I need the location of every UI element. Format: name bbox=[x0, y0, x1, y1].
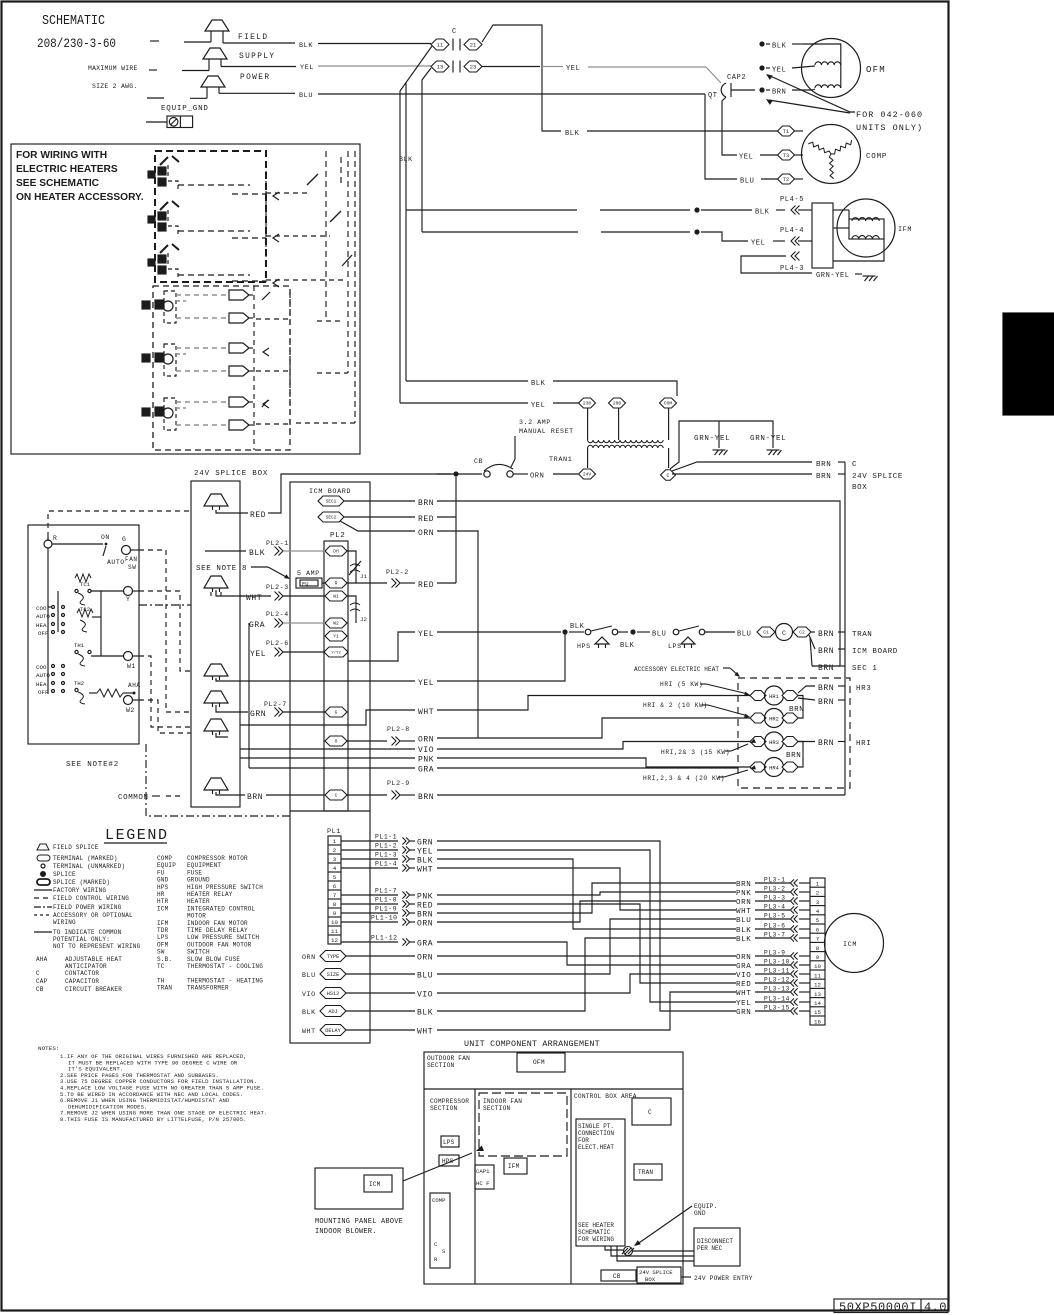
wire ORN PL1 row 922 to PL3 row 901 bbox=[437, 901, 736, 922]
svg-text:Y/Y2: Y/Y2 bbox=[331, 650, 341, 655]
svg-text:GRN-YEL: GRN-YEL bbox=[816, 272, 850, 280]
svg-text:PER NEC: PER NEC bbox=[697, 1245, 723, 1252]
svg-text:AUTO: AUTO bbox=[107, 559, 125, 566]
svg-text:HR1: HR1 bbox=[769, 694, 779, 700]
svg-text:8: 8 bbox=[816, 945, 820, 952]
svg-text:4: 4 bbox=[333, 865, 337, 872]
svg-text:BRN: BRN bbox=[247, 793, 263, 802]
wire WHT2 PL1 row 1030 to PL3 row 992 bbox=[437, 992, 736, 1030]
svg-text:YEL: YEL bbox=[739, 154, 753, 162]
svg-text:DELAY: DELAY bbox=[325, 1028, 341, 1034]
svg-text:SEE SCHEMATIC: SEE SCHEMATIC bbox=[16, 178, 100, 189]
svg-text:BRN: BRN bbox=[816, 461, 831, 469]
svg-text:W2: W2 bbox=[333, 621, 339, 627]
svg-text:YEL: YEL bbox=[250, 650, 266, 659]
svg-text:YEL: YEL bbox=[417, 848, 433, 857]
svg-text:AHA: AHA bbox=[128, 682, 141, 689]
svg-text:9: 9 bbox=[816, 954, 820, 961]
svg-text:HPS: HPS bbox=[577, 643, 591, 650]
svg-text:BRN: BRN bbox=[818, 698, 834, 707]
title block 50XP50000I 4.0 bbox=[834, 1299, 948, 1313]
svg-text:BLU: BLU bbox=[736, 917, 751, 925]
PL2 terminal Y/Y2 bbox=[324, 647, 348, 657]
svg-text:RED: RED bbox=[736, 981, 751, 989]
svg-text:HEATER: HEATER bbox=[187, 898, 210, 905]
svg-text:BRN: BRN bbox=[816, 473, 831, 481]
svg-text:BLU: BLU bbox=[740, 178, 754, 186]
PL1 pin 3 wire BLK bbox=[341, 858, 398, 860]
svg-text:WHT: WHT bbox=[302, 1028, 316, 1035]
svg-text:R: R bbox=[335, 581, 338, 587]
svg-text:WIRING: WIRING bbox=[53, 919, 76, 926]
arrangement dividers bbox=[424, 1088, 683, 1090]
svg-text:YEL: YEL bbox=[531, 402, 545, 410]
svg-text:BRN: BRN bbox=[772, 89, 786, 97]
svg-text:BLK: BLK bbox=[772, 43, 787, 51]
svg-text:PL1-8: PL1-8 bbox=[375, 897, 397, 904]
svg-text:TERMINAL (MARKED): TERMINAL (MARKED) bbox=[53, 855, 118, 862]
svg-text:BRN: BRN bbox=[418, 499, 434, 508]
svg-text:FACTORY WIRING: FACTORY WIRING bbox=[53, 887, 106, 894]
svg-text:PL2-2: PL2-2 bbox=[386, 569, 409, 576]
box TRAN arrangement bbox=[634, 1164, 662, 1180]
box CB arrangement bbox=[601, 1270, 636, 1281]
svg-text:SEE NOTE#2: SEE NOTE#2 bbox=[66, 761, 119, 769]
svg-text:DH: DH bbox=[333, 549, 339, 555]
terminal W2 thermostat bbox=[124, 696, 133, 705]
svg-text:SPLICE (MARKED): SPLICE (MARKED) bbox=[53, 879, 110, 886]
svg-text:HIGH PRESSURE SWITCH: HIGH PRESSURE SWITCH bbox=[187, 884, 263, 891]
svg-text:CAP1: CAP1 bbox=[476, 1168, 490, 1175]
svg-text:BLK: BLK bbox=[755, 209, 770, 217]
connector PL3 body with pins 1-16 bbox=[810, 878, 825, 1025]
vertical RED bus from CB dot bbox=[455, 477, 457, 583]
wire BRN to bracket 24V SPLICE BOX bbox=[672, 473, 812, 475]
svg-text:BLK: BLK bbox=[570, 623, 585, 631]
svg-text:C: C bbox=[452, 28, 457, 36]
svg-text:FOR WIRING: FOR WIRING bbox=[578, 1236, 614, 1243]
svg-text:OFM: OFM bbox=[157, 941, 169, 948]
terminal Y thermostat bbox=[124, 587, 133, 596]
terminal SEC1 with BRN bbox=[318, 496, 344, 506]
heater accessory note box bbox=[11, 144, 360, 454]
svg-text:PL1-10: PL1-10 bbox=[371, 915, 398, 922]
svg-text:50XP50000I: 50XP50000I bbox=[839, 1301, 917, 1315]
heater chevron taps bbox=[273, 192, 279, 200]
svg-text:DISCONNECT: DISCONNECT bbox=[697, 1238, 733, 1245]
svg-text:YEL: YEL bbox=[751, 240, 765, 248]
svg-text:24V: 24V bbox=[583, 472, 592, 478]
svg-text:RED: RED bbox=[250, 511, 266, 520]
svg-text:CAP2: CAP2 bbox=[727, 74, 746, 82]
svg-text:GRN-YEL: GRN-YEL bbox=[750, 435, 786, 443]
svg-text:FAN: FAN bbox=[125, 556, 138, 563]
svg-text:OFM: OFM bbox=[533, 1059, 545, 1066]
svg-text:BLK: BLK bbox=[736, 927, 751, 935]
svg-text:PL2-3: PL2-3 bbox=[266, 584, 289, 591]
svg-text:ICM BOARD: ICM BOARD bbox=[852, 648, 898, 656]
wire RED riser to CB bbox=[271, 474, 451, 513]
terminal COM bbox=[660, 398, 677, 408]
svg-text:BLK: BLK bbox=[417, 1009, 433, 1018]
box SINGLE PT CONNECTION bbox=[576, 1119, 625, 1246]
heater option dashed enclosure upper bbox=[155, 151, 266, 282]
PL2 terminal Y1 bbox=[325, 631, 347, 641]
svg-text:QT: QT bbox=[708, 92, 718, 100]
svg-text:SEC1: SEC1 bbox=[326, 500, 337, 505]
svg-text:BLK: BLK bbox=[299, 42, 313, 50]
svg-text:10: 10 bbox=[331, 919, 338, 926]
svg-text:NOTES:: NOTES: bbox=[38, 1045, 59, 1052]
svg-text:HRI (5 KW): HRI (5 KW) bbox=[660, 681, 703, 688]
box LPS arrangement bbox=[441, 1136, 459, 1147]
legend symbol column bbox=[37, 844, 49, 850]
svg-text:HRI,2,3 & 4 (20 KW): HRI,2,3 & 4 (20 KW) bbox=[643, 775, 725, 782]
svg-text:3: 3 bbox=[816, 899, 820, 906]
field splice SUPPLY line bbox=[149, 69, 157, 71]
wire ORN2 PL1 row 956 to PL3 row 956 bbox=[437, 955, 736, 957]
svg-text:GRA: GRA bbox=[417, 940, 433, 949]
svg-text:SEE NOTE: SEE NOTE bbox=[196, 565, 237, 573]
svg-text:11: 11 bbox=[331, 928, 338, 935]
heater lower dashed risers bbox=[253, 286, 255, 450]
svg-text:ORN: ORN bbox=[530, 473, 544, 481]
svg-text:ORN: ORN bbox=[302, 954, 316, 961]
svg-text:YEL: YEL bbox=[418, 630, 434, 639]
wire BLU PL1 row 974 to PL3 row 919 bbox=[437, 919, 736, 974]
svg-text:6: 6 bbox=[816, 926, 820, 933]
svg-text:MANUAL RESET: MANUAL RESET bbox=[519, 428, 574, 435]
svg-text:FOR: FOR bbox=[578, 1137, 589, 1144]
svg-text:FIELD SPLICE: FIELD SPLICE bbox=[53, 844, 99, 851]
svg-text:PL1-4: PL1-4 bbox=[375, 861, 397, 868]
svg-text:J2: J2 bbox=[360, 616, 367, 623]
svg-text:PL4-3: PL4-3 bbox=[780, 265, 804, 273]
svg-text:SPLICE: SPLICE bbox=[53, 871, 76, 878]
svg-text:LEGEND: LEGEND bbox=[105, 827, 169, 844]
svg-text:TO INDICATE COMMON: TO INDICATE COMMON bbox=[53, 929, 122, 936]
svg-text:PL4-5: PL4-5 bbox=[780, 196, 804, 204]
heater upper right dashed risers bbox=[265, 151, 267, 282]
svg-text:ORN: ORN bbox=[736, 899, 751, 907]
svg-text:12: 12 bbox=[331, 937, 338, 944]
svg-text:2: 2 bbox=[333, 847, 337, 854]
wire GRA PL1 row 942 to PL3 row 965 bbox=[437, 942, 736, 965]
svg-text:SEC 1: SEC 1 bbox=[852, 665, 878, 673]
PL1 pin 2 wire YEL bbox=[341, 849, 398, 851]
svg-text:3: 3 bbox=[333, 856, 337, 863]
svg-text:24V SPLICE: 24V SPLICE bbox=[852, 473, 903, 481]
svg-text:ON: ON bbox=[101, 534, 110, 541]
arrangement outer box bbox=[424, 1052, 683, 1284]
svg-text:PL4-4: PL4-4 bbox=[780, 227, 804, 235]
svg-text:C: C bbox=[335, 793, 338, 799]
svg-text:PL1: PL1 bbox=[327, 828, 341, 836]
svg-text:OFF: OFF bbox=[38, 630, 49, 637]
chevron PL4-3 and GRN-YEL ground bbox=[795, 252, 800, 261]
terminal T1 bbox=[778, 126, 795, 136]
svg-text:CONTROL BOX AREA: CONTROL BOX AREA bbox=[574, 1093, 637, 1100]
dashed G wire to splice box bbox=[139, 550, 191, 712]
field splice POWER line bbox=[147, 97, 164, 99]
svg-text:YEL: YEL bbox=[300, 64, 314, 72]
svg-text:BLK: BLK bbox=[620, 642, 635, 650]
svg-text:PNK: PNK bbox=[418, 756, 434, 765]
svg-text:BLU: BLU bbox=[302, 972, 316, 979]
svg-text:O: O bbox=[335, 739, 338, 745]
svg-text:ICM: ICM bbox=[157, 905, 169, 912]
thermostat anticipator TC1 bbox=[75, 574, 91, 582]
box C contactor arrangement bbox=[632, 1098, 671, 1125]
svg-text:INDOOR BLOWER.: INDOOR BLOWER. bbox=[315, 1228, 377, 1236]
svg-text:OFF: OFF bbox=[38, 689, 49, 696]
terminal T3 with YEL bbox=[722, 97, 737, 155]
svg-text:BRN: BRN bbox=[417, 911, 433, 920]
daisy chain BRN wires on HR right bbox=[798, 696, 803, 719]
svg-text:8: 8 bbox=[333, 901, 337, 908]
svg-text:EQUIP_GND: EQUIP_GND bbox=[161, 105, 209, 113]
splice GRN in 24V box bbox=[204, 691, 228, 703]
svg-text:5: 5 bbox=[816, 917, 820, 924]
PL2 terminal R bbox=[325, 578, 347, 588]
terminal T2 with BLU bbox=[705, 94, 737, 179]
svg-text:COMPRESSOR: COMPRESSOR bbox=[430, 1098, 469, 1105]
svg-text:TRAN: TRAN bbox=[638, 1169, 653, 1176]
svg-text:PL1-7: PL1-7 bbox=[375, 888, 397, 895]
svg-text:GRN: GRN bbox=[250, 710, 266, 719]
svg-text:WHT: WHT bbox=[418, 708, 434, 717]
svg-text:PL2: PL2 bbox=[330, 532, 345, 540]
splice RED in 24V box bbox=[204, 494, 228, 506]
wire BRN SEC1 long run bbox=[437, 501, 840, 666]
wire GRN PL1 row 841 to PL3 row 1011 bbox=[437, 841, 736, 1011]
svg-text:EQUIPMENT: EQUIPMENT bbox=[187, 862, 221, 869]
svg-text:RED: RED bbox=[417, 902, 433, 911]
svg-text:GROUND: GROUND bbox=[187, 877, 210, 884]
svg-text:FIELD POWER WIRING: FIELD POWER WIRING bbox=[53, 904, 122, 911]
svg-text:HR3: HR3 bbox=[769, 740, 779, 746]
svg-text:COMP: COMP bbox=[866, 153, 887, 161]
svg-text:TYPE: TYPE bbox=[327, 954, 339, 960]
svg-text:SCHEMATIC: SCHEMATIC bbox=[578, 1229, 611, 1236]
svg-text:ADJUSTABLE HEAT: ADJUSTABLE HEAT bbox=[65, 956, 122, 963]
PL1 pin 10 wire ORN bbox=[341, 921, 398, 923]
accessory heat dashed enclosure bbox=[738, 678, 850, 788]
svg-text:CB: CB bbox=[474, 458, 483, 465]
svg-text:SECTION: SECTION bbox=[483, 1105, 510, 1112]
svg-text:3.2 AMP: 3.2 AMP bbox=[519, 419, 551, 426]
svg-text:4.0: 4.0 bbox=[924, 1301, 947, 1315]
svg-text:7: 7 bbox=[333, 892, 337, 899]
heater lower diagonal marks bbox=[262, 292, 270, 300]
svg-text:OFM: OFM bbox=[866, 65, 886, 75]
svg-text:BRN: BRN bbox=[818, 647, 834, 656]
wire BLK2 PL1 row 1011 to PL3 row 938 bbox=[437, 938, 736, 1011]
svg-text:1: 1 bbox=[333, 838, 337, 845]
svg-text:PL1-12: PL1-12 bbox=[371, 935, 398, 942]
svg-text:7: 7 bbox=[816, 936, 820, 943]
transformer TRAN1 secondary bbox=[588, 445, 664, 448]
ICM board outline bbox=[290, 482, 370, 1043]
wire YEL to IFM with splice dot bbox=[422, 231, 578, 233]
svg-text:HR3: HR3 bbox=[856, 685, 871, 693]
svg-text:TC: TC bbox=[157, 963, 165, 970]
terminal SEC2 bbox=[318, 512, 344, 522]
BRN to SEC 1 bracket bbox=[810, 637, 812, 666]
svg-text:SW: SW bbox=[157, 949, 165, 956]
svg-text:MOTOR: MOTOR bbox=[187, 913, 206, 920]
svg-text:15: 15 bbox=[814, 1009, 821, 1016]
wire VIO row bbox=[240, 748, 415, 750]
heater contactor element at y=155 bbox=[160, 157, 168, 165]
svg-text:21: 21 bbox=[470, 42, 476, 48]
heater contactor element at y=200 bbox=[160, 202, 168, 210]
thermostat box outline bbox=[28, 525, 139, 744]
terminal 230 bbox=[579, 398, 596, 408]
svg-text:BLK: BLK bbox=[302, 1009, 316, 1016]
svg-text:WHT: WHT bbox=[736, 908, 751, 916]
svg-text:BRN: BRN bbox=[736, 881, 751, 889]
transformer TRAN1 primary bbox=[587, 408, 589, 440]
svg-text:BLK: BLK bbox=[531, 380, 546, 388]
heater element group at y=287 bbox=[164, 291, 176, 323]
svg-text:VIO: VIO bbox=[302, 991, 316, 998]
connector PL4 body bbox=[812, 203, 833, 268]
svg-text:200: 200 bbox=[613, 401, 622, 407]
box COMP arrangement bbox=[430, 1193, 450, 1268]
GRA riser down bbox=[248, 629, 250, 768]
svg-text:8.THIS FUSE IS MANUFACTURED BY: 8.THIS FUSE IS MANUFACTURED BY LITTELFUS… bbox=[60, 1116, 247, 1123]
svg-text:TH1: TH1 bbox=[74, 642, 85, 649]
svg-text:TRAN1: TRAN1 bbox=[549, 456, 572, 464]
GRN-YEL grounds from C terminal bbox=[670, 421, 773, 469]
svg-text:RED: RED bbox=[418, 515, 434, 524]
wire RED PL1 row 904 to PL3 row 983 bbox=[437, 904, 736, 983]
PL1 pin 12 wire GRA bbox=[341, 941, 398, 943]
svg-text:8: 8 bbox=[242, 565, 247, 573]
svg-text:BRN: BRN bbox=[818, 664, 834, 673]
black revision tab on right margin bbox=[1003, 313, 1054, 415]
svg-text:BLU: BLU bbox=[299, 92, 313, 100]
svg-text:ORN: ORN bbox=[417, 954, 433, 963]
svg-text:S.B.: S.B. bbox=[157, 956, 172, 963]
motor ICM circle bbox=[825, 914, 884, 973]
svg-text:INDOOR FAN: INDOOR FAN bbox=[483, 1098, 522, 1105]
connector PL1 body with pins 1-12 bbox=[328, 836, 341, 944]
svg-text:COMP: COMP bbox=[157, 855, 172, 862]
jumper J2 bbox=[347, 596, 356, 623]
svg-text:PL1-1: PL1-1 bbox=[375, 834, 397, 841]
leader FOR 042-060 UNITS ONLY bbox=[766, 74, 773, 80]
svg-text:208/230-3-60: 208/230-3-60 bbox=[37, 37, 116, 51]
svg-text:Y: Y bbox=[126, 596, 130, 603]
svg-text:TC2: TC2 bbox=[80, 606, 90, 613]
svg-text:HR2: HR2 bbox=[769, 717, 779, 723]
box IFM arrangement bbox=[504, 1158, 527, 1174]
svg-text:COMP: COMP bbox=[432, 1197, 446, 1204]
svg-text:TRANSFORMER: TRANSFORMER bbox=[187, 985, 229, 992]
svg-text:FOR 042-060: FOR 042-060 bbox=[856, 110, 923, 120]
svg-text:2: 2 bbox=[816, 890, 820, 897]
wires single pt to disconnect bbox=[605, 1246, 623, 1250]
motor IFM bbox=[837, 199, 895, 257]
svg-text:T1: T1 bbox=[783, 129, 789, 135]
terminal C of transformer bbox=[668, 448, 670, 468]
svg-text:FU: FU bbox=[302, 582, 308, 588]
svg-text:EQUIP: EQUIP bbox=[157, 862, 176, 869]
24V POWER ENTRY label bbox=[681, 1276, 691, 1278]
terminal R bbox=[44, 540, 52, 548]
svg-text:GRN-YEL: GRN-YEL bbox=[694, 435, 730, 443]
svg-text:SW: SW bbox=[128, 564, 136, 571]
terminal W1 thermostat bbox=[124, 652, 133, 661]
PL2 terminal W2 bbox=[325, 618, 347, 628]
accessory dash-dot wire from thermostat bbox=[139, 604, 191, 606]
svg-text:BRN: BRN bbox=[818, 739, 834, 748]
svg-text:9: 9 bbox=[333, 910, 337, 917]
wire WHT PL1 row 868 to PL3 row 910 bbox=[437, 868, 736, 910]
svg-text:1: 1 bbox=[816, 880, 820, 887]
svg-text:SIZE: SIZE bbox=[327, 972, 339, 978]
svg-text:TC1: TC1 bbox=[80, 581, 91, 588]
svg-text:BOX: BOX bbox=[852, 484, 867, 492]
svg-text:YEL: YEL bbox=[736, 1000, 751, 1008]
svg-text:OUTDOOR FAN MOTOR: OUTDOOR FAN MOTOR bbox=[187, 941, 252, 948]
svg-text:TIME DELAY RELAY: TIME DELAY RELAY bbox=[187, 927, 248, 934]
wire ORN from SEC2 bbox=[340, 521, 415, 531]
svg-text:HTR: HTR bbox=[157, 898, 169, 905]
box OFM arrangement bbox=[517, 1053, 565, 1072]
terminal 200 bbox=[609, 398, 626, 408]
svg-text:BLK: BLK bbox=[565, 130, 580, 138]
svg-text:SCHEMATIC: SCHEMATIC bbox=[42, 13, 105, 29]
svg-text:11: 11 bbox=[437, 42, 443, 48]
svg-text:NOT TO REPRESENT WIRING: NOT TO REPRESENT WIRING bbox=[53, 943, 141, 950]
svg-text:PNK: PNK bbox=[736, 890, 751, 898]
wire PNK row bbox=[240, 757, 415, 759]
svg-text:COMMON: COMMON bbox=[118, 794, 149, 802]
svg-text:ON HEATER ACCESSORY.: ON HEATER ACCESSORY. bbox=[16, 192, 144, 203]
heater contactor element at y=243 bbox=[160, 245, 168, 253]
relay HR4 bbox=[750, 762, 766, 772]
wire PNK PL1 row 895 to PL3 row 892 bbox=[437, 892, 736, 895]
wire YEL row2 from splice box bbox=[240, 680, 415, 682]
wire ORN to HR2 bbox=[437, 737, 478, 739]
svg-text:BOX: BOX bbox=[645, 1276, 656, 1283]
svg-text:PL2-8: PL2-8 bbox=[387, 726, 410, 733]
svg-text:CB: CB bbox=[613, 1273, 621, 1280]
PL1 pin 7 wire PNK bbox=[341, 894, 398, 896]
splice WHT in 24V box bbox=[204, 576, 228, 588]
svg-text:C2: C2 bbox=[799, 630, 805, 636]
svg-text:HRI & 2 (10 KW): HRI & 2 (10 KW) bbox=[643, 702, 708, 709]
svg-text:PL1-3: PL1-3 bbox=[375, 852, 397, 859]
PL1 pin 4 wire WHT bbox=[341, 867, 398, 869]
ICM board lower divider bbox=[290, 810, 370, 812]
svg-text:TERMINAL (UNMARKED): TERMINAL (UNMARKED) bbox=[53, 863, 125, 870]
svg-text:ORN: ORN bbox=[736, 954, 751, 962]
svg-text:C: C bbox=[852, 461, 857, 469]
svg-text:MAXIMUM WIRE: MAXIMUM WIRE bbox=[88, 65, 138, 72]
svg-text:ORN: ORN bbox=[418, 529, 434, 538]
svg-text:24V SPLICE BOX: 24V SPLICE BOX bbox=[194, 470, 268, 478]
svg-text:24V POWER ENTRY: 24V POWER ENTRY bbox=[694, 1275, 753, 1282]
svg-text:VIO: VIO bbox=[417, 991, 433, 1000]
svg-text:BLK: BLK bbox=[249, 549, 265, 558]
dashed field wire to RED splice bbox=[47, 537, 49, 541]
motor COMP bbox=[802, 125, 861, 184]
svg-text:IFM: IFM bbox=[157, 920, 169, 927]
